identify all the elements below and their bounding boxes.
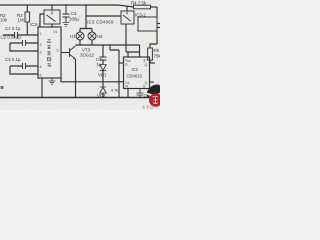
lamp H2 [88,32,96,40]
wire switch left [40,14,44,27]
wire C3 row pin4 [10,65,38,67]
IC1 box [38,27,61,78]
ground IC1 [49,78,56,84]
capacitor C2 plates [23,40,26,46]
wire C7 to VD1 [102,60,104,65]
wire IC2 bottom stub R [127,89,129,98]
wire IC3 bracket [86,15,121,17]
switch IC3-1 contact [47,12,56,22]
switch IC3-2 box [121,11,134,24]
ground C4 [63,23,70,27]
watermark logo black [147,85,160,95]
IC2 box [124,57,150,89]
switch IC3-1 box [44,10,60,24]
transistor VT3 [61,46,76,59]
wire R3 bottom [26,22,28,35]
capacitor C3 plates [23,63,26,69]
wire ladder [126,45,140,57]
wire to R5 [150,44,157,48]
diode VD1 [100,65,106,71]
resistor R3 [25,12,30,22]
resistor R5 [148,48,153,60]
wire IC3-2 bottom [125,24,127,52]
wire IC1 bottom to signal bus [61,78,124,82]
lamp H1 [76,32,84,40]
capacitor C1 plates [15,32,18,38]
wire VD1 to VD2 [102,71,104,87]
wire lamp feed vertical [85,5,87,29]
capacitor C4 [63,5,70,23]
wire top rail [0,5,133,7]
wire IC1 ground pin [41,78,43,98]
wire right rail lower [156,31,158,44]
wire top rail right [151,6,158,8]
wire C7 column top [102,45,104,57]
wire stub to switch IC3-1 [51,5,53,10]
wire terminal stub 2 [157,27,160,29]
wire D pin [119,62,124,64]
watermark small text [143,106,154,109]
wire switch bottom to IC1 [51,24,53,27]
IC1 vertical text [47,39,51,67]
box relay K [138,17,157,31]
wire VD2 to rail [102,93,104,98]
wire loop pin6 [10,66,38,74]
switch IC3-2 contact [123,12,131,21]
wire emitter down [75,59,77,98]
wire Q output [150,62,156,64]
wire R5 to Q [149,60,151,63]
wire terminal stub 1 [157,23,160,25]
wire junction bus [110,45,119,50]
wire lamp bottom bus [76,40,140,45]
wire loop pin3 [10,43,38,51]
wire bottom rail [0,97,157,99]
wire C1 row pin1 [3,34,38,36]
wire vertical node D [118,50,120,98]
wire IC3-2 top stub [126,6,128,11]
wire right rail [156,7,158,17]
wire R3 top [26,5,28,12]
diode VD2 [100,87,106,93]
capacitor C8 [137,89,144,98]
wire C2 row pin2 [10,42,38,44]
paper noise [0,0,1,1]
watermark logo red [149,93,163,107]
resistor R4 [134,5,151,9]
wire lamp top bus [80,29,92,33]
watermark glyph [153,96,159,104]
wire Qbar output [150,81,155,83]
capacitor C7 [100,57,107,60]
stray mark [1,86,4,89]
